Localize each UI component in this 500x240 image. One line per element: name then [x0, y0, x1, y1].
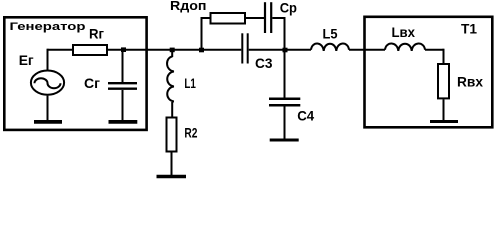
- svg-text:L5: L5: [323, 26, 338, 42]
- svg-text:С3: С3: [255, 55, 273, 71]
- svg-text:R2: R2: [184, 125, 197, 141]
- svg-text:С4: С4: [297, 108, 314, 124]
- svg-text:Генератор: Генератор: [10, 21, 86, 33]
- svg-text:Сг: Сг: [84, 75, 100, 91]
- svg-text:L1: L1: [184, 75, 196, 91]
- svg-text:Т1: Т1: [461, 21, 477, 37]
- svg-text:Ср: Ср: [280, 0, 297, 16]
- svg-text:Lвх: Lвх: [392, 24, 416, 40]
- svg-text:Ег: Ег: [19, 52, 34, 68]
- svg-text:Rг: Rг: [89, 26, 104, 42]
- svg-text:Rдоп: Rдоп: [170, 0, 207, 13]
- svg-text:Rвх: Rвх: [457, 74, 483, 90]
